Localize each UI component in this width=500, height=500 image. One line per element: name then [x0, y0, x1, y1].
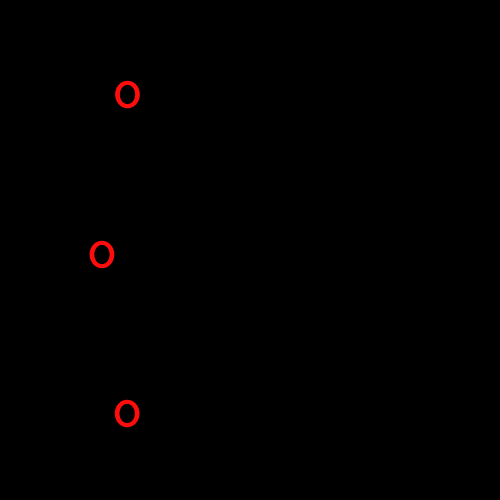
- oxygen atom O2 (middle ester/ether oxygen label): [90, 241, 115, 269]
- oxygen atom O1 (top carbonyl oxygen label): [115, 81, 140, 109]
- oxygen atom O3 (bottom carbonyl oxygen label): [115, 400, 140, 428]
